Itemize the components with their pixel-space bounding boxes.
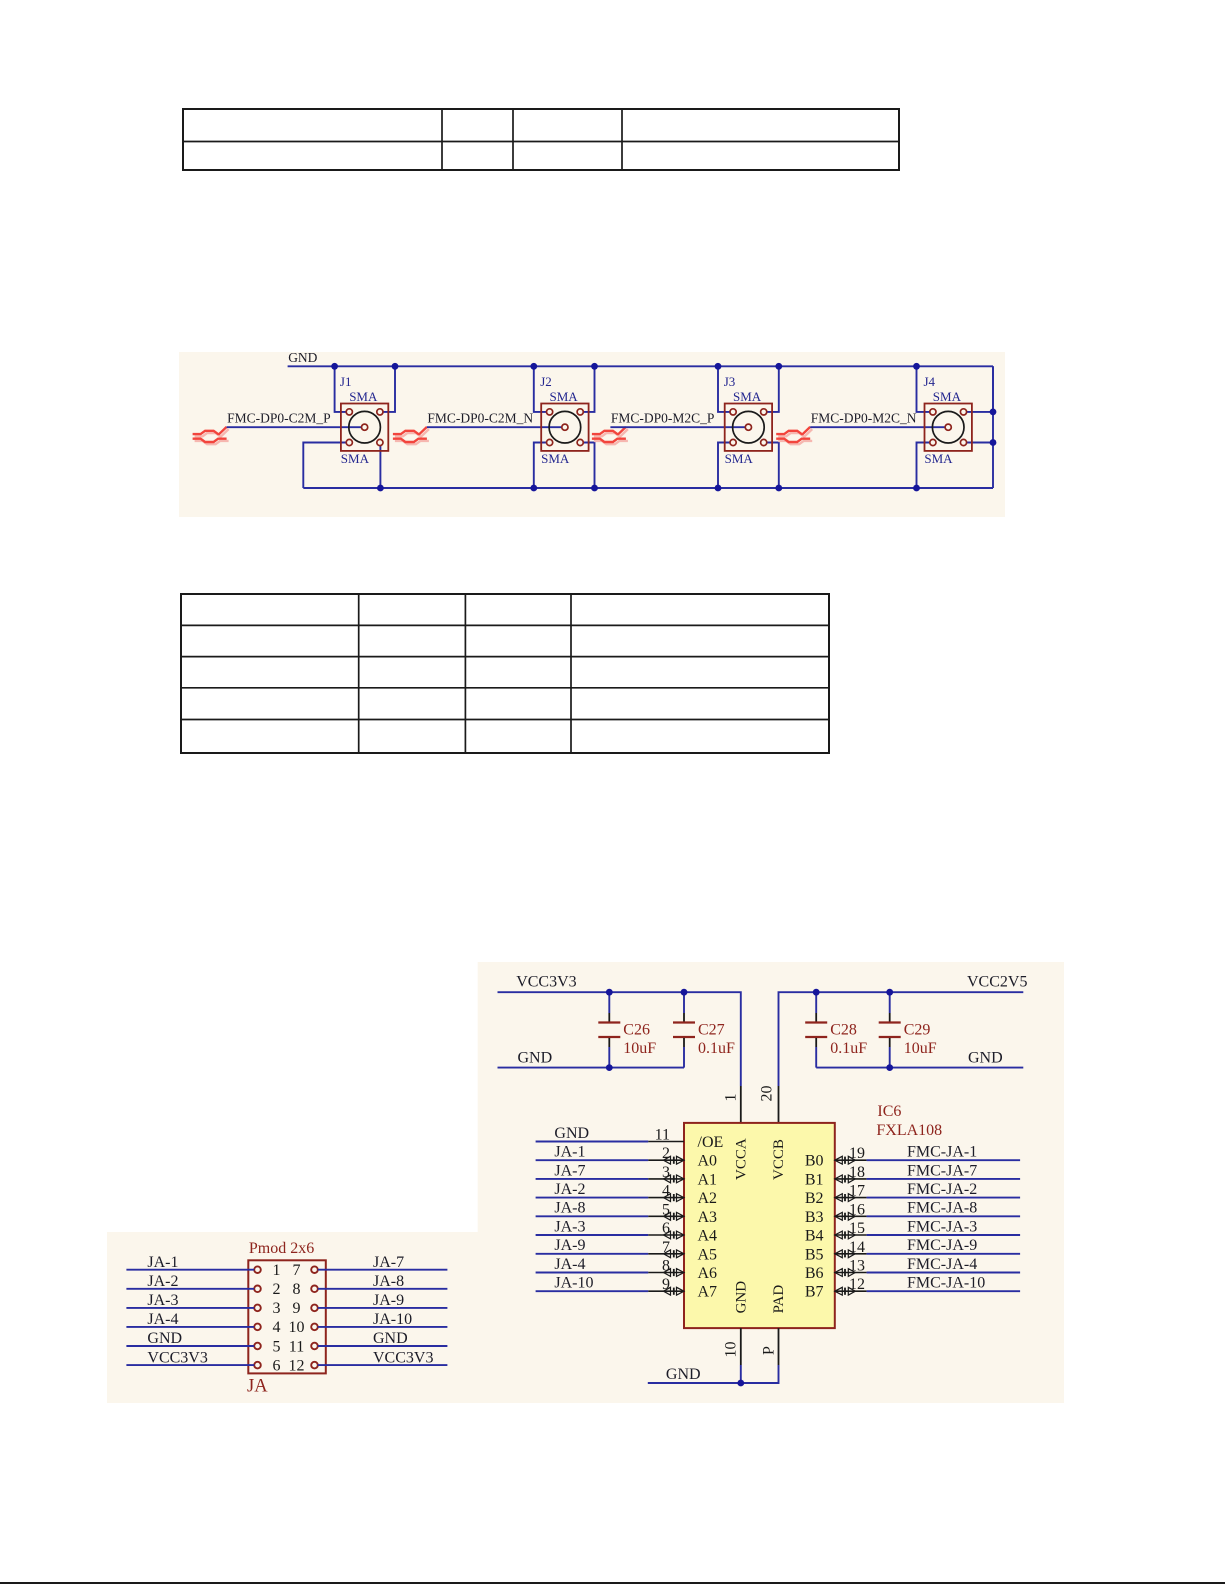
differential pair symbol (FMC-DP0-M2C_N) (776, 427, 812, 444)
wire FMC-JA-8 to pin 16 (835, 1215, 867, 1217)
schematic background (107, 962, 1064, 1403)
svg-text:FMC-JA-1: FMC-JA-1 (907, 1144, 977, 1161)
svg-text:SMA: SMA (733, 389, 762, 404)
svg-text:FMC-JA-4: FMC-JA-4 (907, 1256, 977, 1273)
svg-text:JA: JA (247, 1377, 268, 1397)
capacitor C28 (805, 992, 867, 1067)
svg-text:VCCB: VCCB (771, 1139, 787, 1180)
wire JA-2 (126, 1288, 254, 1290)
pin 20 stub (778, 1086, 780, 1123)
capacitor C27 (673, 992, 735, 1067)
wire GND (318, 1345, 448, 1347)
svg-text:JA-10: JA-10 (373, 1311, 412, 1328)
wire JA-9 to pin 7 (536, 1253, 649, 1255)
svg-text:JA-2: JA-2 (554, 1181, 585, 1198)
svg-text:JA-4: JA-4 (147, 1311, 178, 1328)
connector JA (Pmod 2x6) (247, 1240, 326, 1397)
wire JA-9 (318, 1307, 448, 1309)
svg-text:GND: GND (288, 352, 317, 365)
svg-text:C28: C28 (830, 1021, 857, 1038)
wire JA-3 to pin 6 (536, 1234, 649, 1236)
svg-text:4: 4 (662, 1183, 670, 1200)
svg-text:GND: GND (554, 1125, 589, 1142)
svg-text:5: 5 (662, 1201, 670, 1218)
svg-text:13: 13 (849, 1258, 865, 1275)
svg-text:FMC-JA-7: FMC-JA-7 (907, 1162, 977, 1179)
svg-text:8: 8 (293, 1281, 301, 1298)
svg-text:VCC3V3: VCC3V3 (147, 1349, 207, 1366)
svg-text:GND: GND (518, 1050, 553, 1067)
wire JA-7 (318, 1269, 448, 1271)
svg-text:JA-1: JA-1 (147, 1254, 178, 1271)
wire GND to pin 11 (536, 1141, 649, 1143)
connector body (925, 404, 972, 451)
wire bottom ground return (303, 487, 993, 489)
svg-text:12: 12 (849, 1276, 865, 1293)
svg-text:FMC-DP0-C2M_N: FMC-DP0-C2M_N (427, 411, 533, 426)
svg-text:VCC3V3: VCC3V3 (373, 1349, 433, 1366)
schematic background (179, 352, 1005, 517)
wire FMC-JA-10 to pin 12 (835, 1290, 867, 1292)
pin arrow (835, 1156, 856, 1164)
svg-text:3: 3 (662, 1164, 670, 1181)
wire FMC-JA-9 to pin 14 (835, 1253, 867, 1255)
svg-text:VCC2V5: VCC2V5 (967, 973, 1027, 990)
svg-text:6: 6 (662, 1220, 670, 1237)
wire VCC3V3 (126, 1364, 254, 1366)
svg-text:VCC3V3: VCC3V3 (516, 973, 576, 990)
pin arrow (664, 1175, 685, 1183)
svg-text:/OE: /OE (698, 1134, 724, 1151)
svg-text:3: 3 (273, 1300, 281, 1317)
svg-text:SMA: SMA (541, 451, 570, 466)
svg-text:16: 16 (849, 1201, 865, 1218)
svg-text:7: 7 (662, 1239, 670, 1256)
svg-text:JA-2: JA-2 (147, 1273, 178, 1290)
connector J2 SMA (534, 366, 595, 488)
svg-text:FMC-JA-3: FMC-JA-3 (907, 1218, 977, 1235)
svg-text:JA-9: JA-9 (554, 1237, 585, 1254)
pin 4 (254, 1324, 261, 1331)
svg-text:PAD: PAD (771, 1285, 787, 1314)
pin arrow (664, 1250, 685, 1258)
differential pair symbol (FMC-DP0-C2M_P) (193, 427, 229, 444)
svg-text:20: 20 (759, 1086, 776, 1102)
svg-text:11: 11 (289, 1338, 304, 1355)
svg-text:JA-10: JA-10 (554, 1275, 593, 1292)
coax barrel (932, 411, 964, 443)
wire JA-3 (126, 1307, 254, 1309)
svg-text:GND: GND (147, 1330, 182, 1347)
pin arrow (835, 1212, 856, 1220)
pin arrow (835, 1175, 856, 1183)
svg-text:FMC-JA-8: FMC-JA-8 (907, 1200, 977, 1217)
wire JA-2 to pin 4 (536, 1197, 649, 1199)
center pin (562, 424, 568, 430)
svg-text:B2: B2 (805, 1190, 824, 1207)
pin 2 (254, 1286, 261, 1293)
pin arrow (835, 1194, 856, 1202)
pin wires (303, 366, 395, 488)
svg-text:5: 5 (273, 1338, 281, 1355)
pin 12 (311, 1362, 318, 1369)
svg-text:SMA: SMA (349, 389, 378, 404)
svg-text:17: 17 (849, 1183, 865, 1200)
svg-text:C29: C29 (904, 1021, 931, 1038)
svg-text:FMC-DP0-C2M_P: FMC-DP0-C2M_P (227, 411, 331, 426)
svg-text:B4: B4 (805, 1228, 824, 1245)
svg-text:GND: GND (666, 1366, 701, 1383)
wire GND top rail (288, 365, 993, 367)
svg-text:0.1uF: 0.1uF (830, 1040, 867, 1057)
svg-text:Pmod 2x6: Pmod 2x6 (249, 1240, 314, 1257)
pin 3 (254, 1305, 261, 1312)
pin arrow (835, 1231, 856, 1239)
wire FMC-JA-4 to pin 13 (835, 1272, 867, 1274)
svg-text:FMC-DP0-M2C_P: FMC-DP0-M2C_P (611, 411, 715, 426)
pin 11 (311, 1343, 318, 1350)
connector body (541, 404, 588, 451)
svg-text:JA-8: JA-8 (373, 1273, 404, 1290)
center pin (362, 424, 368, 430)
svg-text:B0: B0 (805, 1153, 824, 1170)
svg-text:A6: A6 (698, 1265, 718, 1282)
svg-text:4: 4 (273, 1319, 281, 1336)
pin 9 (311, 1305, 318, 1312)
svg-text:6: 6 (273, 1357, 281, 1374)
wire VCC3V3 rail (498, 992, 741, 1086)
wire JA-7 to pin 3 (536, 1178, 649, 1180)
svg-text:SMA: SMA (924, 451, 953, 466)
center pin (945, 424, 951, 430)
svg-text:SMA: SMA (933, 389, 962, 404)
table (empty 2x4) (182, 108, 900, 171)
wire FMC-DP0-C2M_P (227, 426, 365, 428)
wire JA-1 (126, 1269, 254, 1271)
svg-text:IC6: IC6 (877, 1103, 901, 1120)
pin arrow (664, 1269, 685, 1277)
svg-text:8: 8 (662, 1258, 670, 1275)
pin P stub (778, 1328, 780, 1365)
pin wires (534, 366, 595, 488)
svg-text:B6: B6 (805, 1265, 824, 1282)
svg-text:15: 15 (849, 1220, 865, 1237)
pin 6 (254, 1362, 261, 1369)
svg-text:JA-8: JA-8 (554, 1200, 585, 1217)
svg-text:FXLA108: FXLA108 (876, 1122, 942, 1139)
pin 10 stub (740, 1328, 742, 1365)
svg-text:A1: A1 (698, 1171, 718, 1188)
coax barrel (549, 411, 581, 443)
svg-text:JA-4: JA-4 (554, 1256, 585, 1273)
connector body (725, 404, 772, 451)
connector body (248, 1260, 325, 1373)
svg-text:JA-3: JA-3 (554, 1218, 585, 1235)
svg-text:P: P (760, 1346, 777, 1355)
connector J4 SMA (917, 366, 994, 488)
svg-text:JA-9: JA-9 (373, 1292, 404, 1309)
pin 5 (254, 1343, 261, 1350)
coax barrel (349, 411, 381, 443)
wire JA-8 (318, 1288, 448, 1290)
wire FMC-JA-3 to pin 15 (835, 1234, 867, 1236)
center pin (745, 424, 751, 430)
wire JA-4 (126, 1326, 254, 1328)
wire JA-8 to pin 5 (536, 1215, 649, 1217)
wire GND (126, 1345, 254, 1347)
svg-text:12: 12 (289, 1357, 305, 1374)
svg-text:A5: A5 (698, 1246, 718, 1263)
pin arrow (835, 1269, 856, 1277)
svg-text:J4: J4 (924, 374, 936, 389)
svg-text:SMA: SMA (341, 451, 370, 466)
wire FMC-DP0-M2C_P (610, 426, 748, 428)
wire FMC-DP0-C2M_N (427, 426, 565, 428)
svg-text:J1: J1 (340, 374, 352, 389)
connector body (341, 404, 388, 451)
wire FMC-JA-7 to pin 18 (835, 1178, 867, 1180)
svg-text:A4: A4 (698, 1228, 718, 1245)
svg-text:B3: B3 (805, 1209, 824, 1226)
pin arrow (835, 1250, 856, 1258)
svg-text:18: 18 (849, 1164, 865, 1181)
svg-text:GND: GND (734, 1281, 750, 1314)
svg-text:10uF: 10uF (904, 1040, 937, 1057)
wire GND left rail (498, 1067, 685, 1069)
svg-text:C26: C26 (623, 1021, 650, 1038)
svg-text:B1: B1 (805, 1171, 824, 1188)
svg-text:10uF: 10uF (623, 1040, 656, 1057)
svg-text:9: 9 (662, 1276, 670, 1293)
wire GND (648, 1365, 779, 1383)
pin arrow (664, 1212, 685, 1220)
svg-text:SMA: SMA (550, 389, 579, 404)
pin arrow (835, 1287, 856, 1295)
svg-text:JA-7: JA-7 (554, 1162, 585, 1179)
pin 10 (311, 1324, 318, 1331)
pin arrow (664, 1156, 685, 1164)
pin 1 stub (740, 1086, 742, 1123)
svg-text:14: 14 (849, 1239, 865, 1256)
pin arrow (664, 1231, 685, 1239)
svg-text:GND: GND (968, 1050, 1003, 1067)
footer rule (0, 1582, 1225, 1584)
svg-text:JA-1: JA-1 (554, 1144, 585, 1161)
svg-text:J3: J3 (724, 374, 736, 389)
svg-text:SMA: SMA (725, 451, 754, 466)
wire VCC2V5 rail (779, 992, 1024, 1086)
svg-text:1: 1 (273, 1262, 281, 1279)
IC body (684, 1123, 835, 1328)
svg-text:2: 2 (662, 1145, 670, 1162)
svg-text:VCCA: VCCA (734, 1138, 750, 1180)
wire JA-1 to pin 2 (536, 1159, 649, 1161)
IC IC6 FXLA108 (684, 1103, 942, 1328)
schematic: Pmod JA + FXLA108 level translator (107, 962, 1064, 1404)
svg-text:FMC-DP0-M2C_N: FMC-DP0-M2C_N (811, 411, 917, 426)
wire JA-4 to pin 8 (536, 1272, 649, 1274)
svg-text:FMC-JA-2: FMC-JA-2 (907, 1181, 977, 1198)
wire JA-10 (318, 1326, 448, 1328)
capacitor C26 (598, 992, 656, 1067)
wire VCC3V3 (318, 1364, 448, 1366)
pin wires (718, 366, 779, 488)
svg-text:9: 9 (293, 1300, 301, 1317)
svg-text:C27: C27 (698, 1021, 725, 1038)
capacitor C29 (879, 992, 937, 1067)
pin wires (917, 366, 994, 488)
pin 1 (254, 1266, 261, 1273)
wire right ground rail (992, 366, 994, 488)
schematic: SMA connectors J1-J4 (179, 352, 1005, 517)
pin arrow (664, 1287, 685, 1295)
svg-text:A2: A2 (698, 1190, 718, 1207)
differential pair symbol (FMC-DP0-M2C_P) (592, 427, 628, 444)
svg-text:JA-3: JA-3 (147, 1292, 178, 1309)
junction dots (606, 989, 893, 1071)
svg-text:FMC-JA-10: FMC-JA-10 (907, 1275, 985, 1292)
wire GND right rail (816, 1067, 1023, 1069)
connector J3 SMA (718, 366, 779, 488)
svg-text:19: 19 (849, 1145, 865, 1162)
svg-text:JA-7: JA-7 (373, 1254, 404, 1271)
svg-text:1: 1 (723, 1094, 740, 1102)
svg-text:B5: B5 (805, 1246, 824, 1263)
pin 8 (311, 1286, 318, 1293)
svg-text:A3: A3 (698, 1209, 718, 1226)
svg-text:J2: J2 (540, 374, 552, 389)
svg-text:B7: B7 (805, 1284, 824, 1301)
svg-text:A0: A0 (698, 1153, 718, 1170)
junction dot (737, 1380, 744, 1387)
wire JA-10 to pin 9 (536, 1290, 649, 1292)
pin 7 (311, 1266, 318, 1273)
coax barrel (733, 411, 765, 443)
svg-text:GND: GND (373, 1330, 408, 1347)
connector J1 SMA (303, 366, 395, 488)
junction dots (331, 363, 996, 492)
svg-text:10: 10 (289, 1319, 305, 1336)
svg-text:2: 2 (273, 1281, 281, 1298)
wire FMC-JA-1 to pin 19 (835, 1159, 867, 1161)
svg-text:10: 10 (723, 1342, 740, 1358)
differential pair symbol (FMC-DP0-C2M_N) (393, 427, 429, 444)
table (empty 5x4) (180, 593, 830, 754)
svg-text:0.1uF: 0.1uF (698, 1040, 735, 1057)
wire FMC-JA-2 to pin 17 (835, 1197, 867, 1199)
svg-text:A7: A7 (698, 1284, 718, 1301)
svg-text:7: 7 (293, 1262, 301, 1279)
pin arrow (664, 1194, 685, 1202)
svg-text:FMC-JA-9: FMC-JA-9 (907, 1237, 977, 1254)
wire FMC-DP0-M2C_N (810, 426, 948, 428)
svg-text:11: 11 (655, 1127, 670, 1144)
